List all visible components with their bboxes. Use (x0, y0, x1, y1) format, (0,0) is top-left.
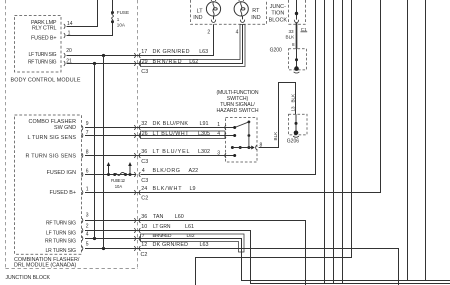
wire row 26 LT BLU/WHT L305 to switch pin 4, highlighted (85, 135, 235, 137)
svg-text:SW GND: SW GND (54, 125, 76, 131)
svg-text:BLK/WHT: BLK/WHT (153, 186, 183, 192)
connector pair row 12 (134, 246, 140, 251)
svg-text:LT BLU/WHT: LT BLU/WHT (153, 131, 190, 137)
svg-text:JUNCTION BLOCK: JUNCTION BLOCK (6, 275, 51, 281)
svg-text:36: 36 (141, 214, 147, 220)
row 26 labels (142, 131, 210, 137)
svg-text:32: 32 (141, 121, 147, 127)
multi-function switch label (217, 90, 259, 114)
junction node row 12 (102, 247, 105, 250)
svg-text:4: 4 (236, 30, 239, 36)
ground G200 (289, 49, 307, 73)
highlight outline of wire 29 (141, 25, 246, 67)
switch link bar (248, 122, 250, 148)
row 29 labels (142, 59, 199, 65)
bus wire vertical 6 (425, 0, 427, 281)
connector pair row 7 (134, 236, 140, 241)
svg-text:L305: L305 (198, 131, 210, 137)
svg-text:4: 4 (142, 168, 145, 174)
svg-text:RF TURN SIG: RF TURN SIG (28, 59, 57, 65)
highlight outline of wire 26 (141, 131, 226, 139)
wire row 4 BLK/ORG A22 up right bus (141, 0, 316, 175)
switch contacts (231, 121, 251, 158)
svg-text:FUSED IGN: FUSED IGN (47, 170, 76, 176)
junction block outer dashed boundary (6, 0, 139, 269)
bus wire vertical 1 (324, 0, 326, 284)
connector pair row 4 (134, 172, 140, 177)
svg-text:1: 1 (86, 186, 89, 192)
row 7 labels (142, 233, 195, 239)
ground G206 (289, 114, 308, 137)
combo flasher pin connectors (82, 126, 83, 251)
svg-text:FUSE 12: FUSE 12 (111, 178, 126, 183)
svg-text:G206: G206 (287, 139, 299, 145)
svg-text:3: 3 (86, 212, 89, 218)
svg-text:BLK: BLK (273, 131, 278, 141)
connector pair row 17 (134, 53, 140, 58)
wire branch L63 vertical (103, 56, 105, 249)
connector pair row 36 TAN (134, 218, 140, 223)
switch output wire to pin 8 (232, 147, 251, 149)
connector C1 label with tick (301, 31, 308, 33)
wire row 17 DK GRN/RED L63 (BCM pin20 to LT IND) (67, 24, 214, 55)
row 17 labels (141, 49, 208, 55)
svg-text:36: 36 (141, 149, 147, 155)
arrow at pin 8 (251, 146, 255, 150)
svg-text:26: 26 (142, 131, 148, 137)
row 24 labels (141, 186, 195, 192)
svg-text:4: 4 (217, 131, 220, 137)
body control module box (15, 16, 62, 73)
svg-text:COMBO FLASHER: COMBO FLASHER (29, 119, 77, 125)
BCM pin label PARK LMP RLY CTRL (28, 20, 57, 65)
fuse F1 (111, 0, 114, 23)
svg-text:5: 5 (86, 241, 89, 247)
combination flasher label (14, 257, 80, 269)
lamp LT IND label (193, 9, 203, 22)
svg-text:C3: C3 (141, 178, 148, 184)
wire row 29 BRN/RED L62 (BCM pin21 to RT IND), highlighted (67, 24, 243, 63)
svg-text:BRN/RED: BRN/RED (153, 233, 173, 239)
svg-text:29: 29 (142, 59, 148, 65)
fuse F12 value labels (111, 178, 126, 189)
wire pin1 FUSED B+ to fuse 1 (67, 22, 113, 36)
connector pair row 36 (134, 153, 140, 158)
svg-text:LF TURN SIG: LF TURN SIG (46, 231, 76, 237)
svg-text:BODY CONTROL MODULE: BODY CONTROL MODULE (11, 77, 81, 83)
svg-text:C2: C2 (141, 252, 148, 258)
svg-text:12: 12 (141, 242, 147, 248)
wire row 36 LT BLU/YEL L302 to switch pin 3 (85, 155, 235, 157)
svg-text:A22: A22 (189, 168, 199, 174)
svg-text:C1: C1 (301, 27, 307, 32)
junction node row 7 (93, 237, 96, 240)
svg-text:3: 3 (217, 151, 220, 157)
connector pair row 10 (134, 228, 140, 233)
svg-text:10A: 10A (117, 23, 126, 28)
svg-text:IND: IND (251, 15, 260, 21)
svg-text:DK BLU/PNK: DK BLU/PNK (153, 121, 189, 127)
row 12 labels (141, 242, 208, 248)
wire row 36 TAN L60 down to bottom (85, 221, 306, 285)
wire row 10 LT GRN L61 to bottom right exit (85, 231, 450, 284)
row 32 labels (141, 121, 208, 127)
svg-text:C2: C2 (141, 196, 148, 202)
combination flasher module box (15, 115, 82, 254)
svg-text:L63: L63 (200, 242, 209, 248)
connector pair row 29 (134, 61, 140, 66)
junction block top-right dashed box (289, 0, 306, 24)
svg-text:9: 9 (86, 121, 89, 127)
svg-text:LT BLU/YEL: LT BLU/YEL (153, 149, 190, 155)
row 4 labels (142, 168, 198, 174)
svg-text:1: 1 (117, 17, 120, 22)
svg-text:L61: L61 (185, 224, 194, 230)
svg-text:DRL MODULE (CANADA): DRL MODULE (CANADA) (14, 263, 77, 269)
svg-text:24: 24 (141, 186, 147, 192)
svg-text:L91: L91 (200, 121, 209, 127)
junction node (295, 12, 298, 15)
svg-text:L60: L60 (175, 214, 184, 220)
svg-text:FUSE: FUSE (117, 10, 129, 15)
svg-text:HAZARD SWITCH: HAZARD SWITCH (217, 108, 259, 114)
connector pair row 24 (134, 190, 140, 195)
combo flasher pin labels (26, 119, 77, 254)
bus wire vertical 4 with bottom return (196, 0, 352, 285)
lamp RT IND (234, 0, 248, 22)
svg-text:RF TURN SIG: RF TURN SIG (46, 220, 76, 226)
svg-text:LT: LT (197, 9, 204, 15)
svg-text:2: 2 (86, 223, 89, 229)
junction node on row 29 (93, 62, 96, 65)
svg-text:RLY CTRL: RLY CTRL (32, 26, 57, 32)
row 36 labels (141, 149, 210, 155)
highlight outline of wire 7 (141, 234, 245, 252)
svg-text:JUNC-: JUNC- (270, 4, 286, 10)
svg-text:C3: C3 (141, 69, 148, 75)
wire pin14 PARK LMP RLY CTRL up to top (67, 0, 98, 27)
svg-text:20: 20 (66, 48, 72, 54)
svg-text:IND: IND (193, 15, 202, 21)
svg-text:RR TURN SIG: RR TURN SIG (45, 238, 76, 244)
bus wire vertical 3 (342, 0, 344, 284)
row 36 TAN labels (141, 214, 184, 220)
switch wiper arm (235, 122, 249, 128)
svg-text:G200: G200 (270, 47, 282, 53)
svg-text:FUSED B+: FUSED B+ (49, 190, 76, 196)
wire fused ign row with fuse 12 (85, 174, 136, 176)
cluster pin numbers 2 and 4 (207, 30, 238, 36)
branch arrow left of fuse 12 (107, 162, 111, 175)
bus wire vertical 5 (407, 0, 409, 281)
svg-text:R TURN SIG SENS: R TURN SIG SENS (26, 153, 77, 159)
lamp RT IND label (251, 8, 260, 21)
multi-function switch box (226, 118, 258, 163)
svg-text:7: 7 (142, 233, 145, 239)
svg-text:L63: L63 (199, 49, 208, 55)
svg-text:BRN/RED: BRN/RED (153, 59, 182, 65)
wire inside junction block (296, 0, 298, 20)
bus wire vertical 2 (333, 0, 335, 284)
row 10 labels (141, 224, 194, 230)
lamp LT IND (206, 0, 220, 22)
switch pin connectors (225, 125, 257, 158)
instrument cluster dashed box (191, 0, 267, 24)
svg-text:10: 10 (141, 224, 147, 230)
svg-text:2: 2 (207, 30, 210, 36)
svg-text:RT: RT (252, 8, 260, 14)
svg-text:DK GRN/RED: DK GRN/RED (153, 49, 190, 55)
switch pin numbers (217, 122, 220, 156)
svg-text:13 BLK: 13 BLK (290, 93, 295, 112)
BCM pin numbers (66, 21, 73, 64)
BCM pin connectors (64, 24, 65, 66)
svg-text:TION: TION (271, 11, 284, 17)
junction node on row 17 (102, 54, 105, 57)
fuse F1 value labels (117, 10, 129, 28)
wire row 12 DK GRN/RED L63 to bottom exit (85, 249, 399, 285)
svg-text:FUSED B+: FUSED B+ (31, 36, 57, 42)
svg-text:L9: L9 (190, 186, 196, 192)
wire BLK from switch pin 8 to G206 (259, 83, 296, 148)
svg-text:L62: L62 (187, 233, 195, 239)
svg-text:17: 17 (141, 49, 147, 55)
svg-text:1: 1 (217, 122, 220, 128)
svg-text:DK GRN/RED: DK GRN/RED (153, 242, 189, 248)
svg-text:LF TURN SIG: LF TURN SIG (29, 52, 57, 58)
svg-text:10A: 10A (115, 184, 123, 189)
svg-text:TAN: TAN (153, 214, 163, 220)
wire 33 BLK to G200 (296, 23, 298, 49)
svg-text:L62: L62 (189, 59, 198, 65)
fuse F12 (107, 172, 132, 176)
svg-text:6: 6 (86, 168, 89, 174)
svg-text:BLK/ORG: BLK/ORG (153, 168, 181, 174)
svg-text:8: 8 (86, 150, 89, 156)
branch arrow right of fuse 12 (128, 162, 132, 175)
svg-text:33: 33 (288, 29, 294, 34)
wire row 24 BLK/WHT L9 up right bus (85, 0, 381, 193)
connector pair row 26 (134, 133, 140, 138)
combo flasher pin numbers (86, 121, 89, 247)
svg-text:LT GRN: LT GRN (153, 224, 171, 230)
wire row 32 DK BLU/PNK L91 to switch pin 1 (85, 127, 235, 129)
wire 33 BLK labels (286, 29, 296, 47)
svg-text:LR TURN SIG: LR TURN SIG (46, 248, 77, 254)
svg-text:4: 4 (86, 231, 89, 237)
svg-text:8: 8 (292, 42, 295, 47)
junction block (top right) label (269, 4, 288, 24)
connector pair row 32 (134, 125, 140, 130)
svg-text:BLOCK: BLOCK (269, 17, 288, 23)
svg-text:L302: L302 (198, 149, 210, 155)
wire row 7 BRN/RED L62 to bottom right exit, highlighted (85, 239, 450, 281)
wire branch L62 vertical (94, 64, 96, 239)
svg-text:L TURN SIG SENS: L TURN SIG SENS (28, 135, 77, 141)
svg-text:BLK: BLK (286, 34, 296, 39)
connector cup (294, 20, 298, 23)
svg-text:C3: C3 (141, 159, 148, 165)
